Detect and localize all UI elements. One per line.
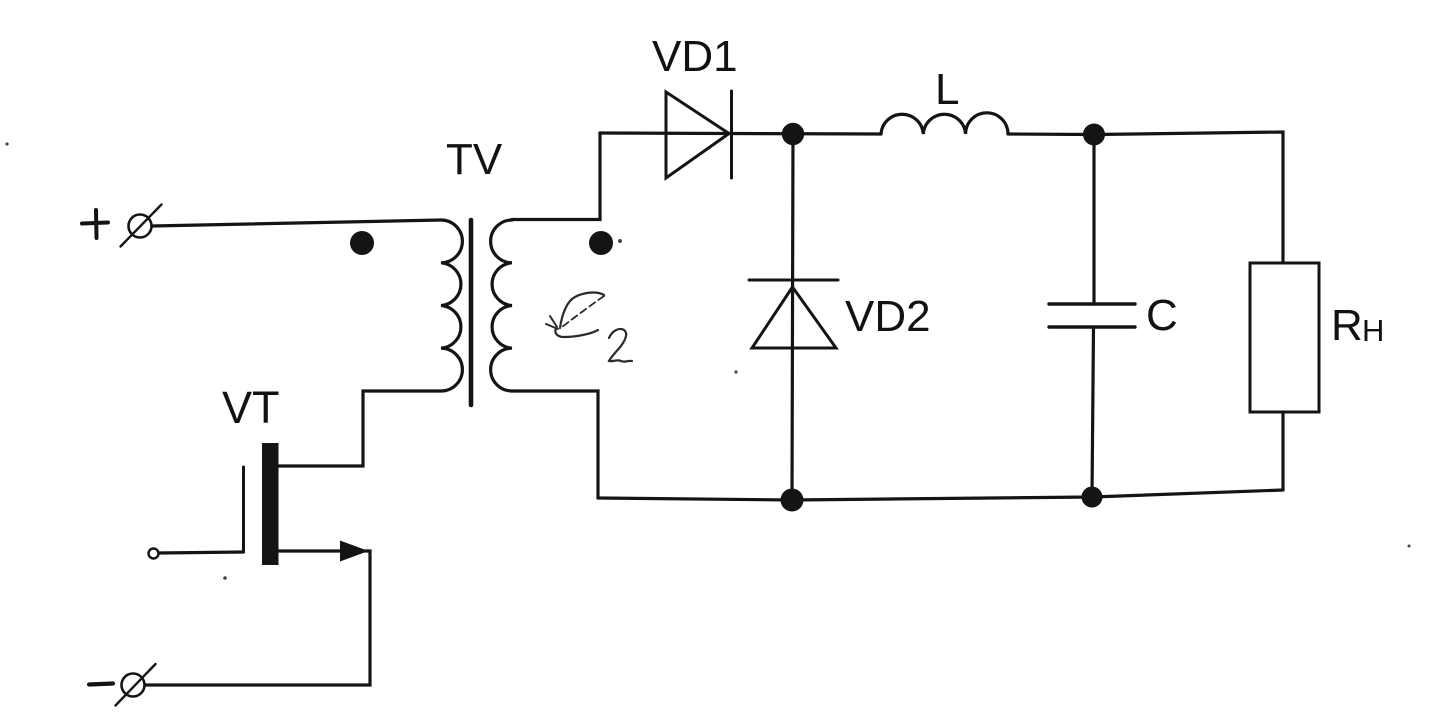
wire secondary bottom lead bbox=[512, 391, 598, 498]
wire top rail right bbox=[1094, 132, 1283, 263]
label minus bbox=[89, 684, 113, 685]
inductor L bbox=[881, 113, 1008, 134]
svg-text:R: R bbox=[1331, 301, 1363, 350]
diode VD1 cathode bar bbox=[730, 91, 733, 178]
transformer secondary winding bbox=[491, 220, 512, 391]
terminal plus bbox=[121, 205, 162, 247]
transistor VT gate terminal circle bbox=[149, 549, 159, 559]
wire primary bottom lead to VT drain bbox=[278, 391, 441, 466]
capacitor C bottom plate bbox=[1049, 325, 1135, 328]
capacitor C top plate bbox=[1049, 302, 1135, 305]
primary polarity dot bbox=[350, 231, 374, 255]
svg-text:L: L bbox=[935, 65, 959, 114]
wire secondary top lead bbox=[512, 133, 600, 220]
wire resistor bottom bbox=[1281, 412, 1284, 490]
wire VD1 to inductor bbox=[731, 132, 881, 136]
node junction VD2-bottom bbox=[781, 489, 804, 512]
svg-text:TV: TV bbox=[446, 135, 503, 184]
handwritten annotation w2 loop bbox=[546, 293, 604, 337]
node junction C-bottom bbox=[1082, 487, 1103, 508]
transistor VT channel bar bbox=[262, 443, 279, 565]
terminal minus bbox=[116, 664, 156, 706]
svg-text:VD2: VD2 bbox=[845, 292, 931, 341]
node junction VD2-top bbox=[782, 123, 804, 145]
wire VD2 branch vertical bbox=[792, 134, 793, 500]
transformer core bbox=[469, 220, 474, 405]
node junction C-top bbox=[1083, 124, 1105, 146]
svg-text:C: C bbox=[1146, 291, 1178, 340]
diode VD1 triangle bbox=[666, 92, 729, 178]
wire bottom rail bbox=[598, 490, 1283, 500]
transformer primary winding bbox=[441, 220, 462, 391]
svg-text:VD1: VD1 bbox=[652, 32, 738, 81]
label RH bbox=[1331, 301, 1384, 350]
svg-text:VT: VT bbox=[222, 382, 280, 433]
wire top rail left bbox=[600, 131, 731, 135]
handwritten annotation subscript 2 bbox=[609, 329, 632, 362]
svg-text:H: H bbox=[1362, 313, 1384, 348]
wire inductor to C node bbox=[1008, 132, 1094, 136]
transistor VT source arrow bbox=[340, 541, 369, 562]
transistor VT gate lead bbox=[159, 552, 244, 553]
wire C branch bottom bbox=[1092, 327, 1094, 497]
wire C branch top bbox=[1092, 135, 1095, 305]
transistor VT source lead with wire to minus terminal bbox=[145, 551, 370, 685]
label + bbox=[82, 210, 108, 238]
secondary polarity dot bbox=[589, 231, 613, 255]
transistor VT gate electrode bbox=[242, 467, 245, 551]
diode VD2 cathode bar bbox=[749, 279, 838, 282]
diode VD2 triangle bbox=[752, 287, 836, 348]
paper speck marks bbox=[5, 142, 1410, 579]
resistor RH body bbox=[1250, 263, 1319, 412]
wire plus-to-primary bbox=[152, 220, 441, 226]
